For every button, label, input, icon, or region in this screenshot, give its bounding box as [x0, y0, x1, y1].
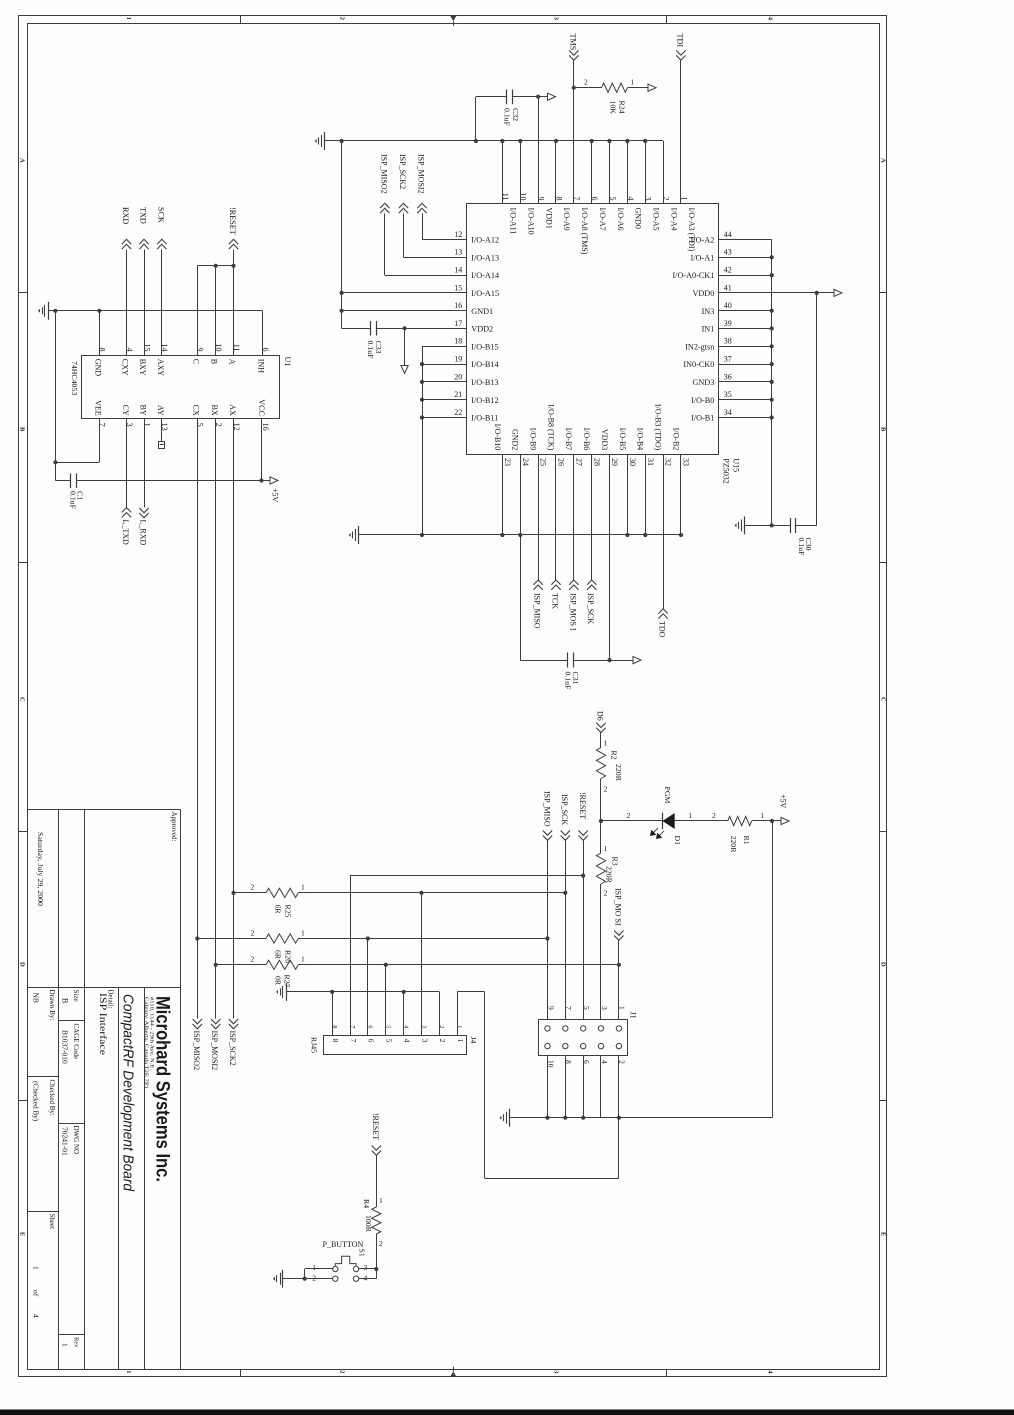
- svg-text:1: 1: [604, 844, 608, 853]
- svg-text:1: 1: [61, 1343, 70, 1347]
- label 74HC4053: [70, 361, 79, 395]
- svg-text:1: 1: [456, 1039, 465, 1043]
- wire VEE pin7: [55, 419, 99, 463]
- svg-text:DWG NO: DWG NO: [72, 1126, 80, 1155]
- svg-text:6R: 6R: [274, 905, 283, 915]
- svg-text:15: 15: [142, 344, 151, 352]
- svg-text:100R: 100R: [364, 1215, 373, 1233]
- label R27: [283, 975, 292, 988]
- U15 top pin names: [509, 208, 697, 255]
- svg-text:10K: 10K: [608, 101, 617, 115]
- svg-text:1: 1: [32, 1266, 41, 1270]
- svg-text:3: 3: [600, 1006, 609, 1010]
- flag TCK (pin26): [550, 454, 560, 609]
- svg-text:I/O-B3 (TDO): I/O-B3 (TDO): [654, 404, 663, 451]
- svg-text:D6: D6: [596, 711, 605, 721]
- title block DWG NO value: [61, 1127, 70, 1156]
- wire R26 to ISP_MISO: [298, 936, 549, 940]
- svg-text:GND1: GND1: [471, 307, 493, 316]
- svg-text:30: 30: [628, 458, 637, 466]
- wire A-B-C tie: [197, 264, 235, 268]
- svg-text:39: 39: [724, 319, 732, 328]
- svg-text:4: 4: [402, 1039, 411, 1043]
- wire ISP_SCK to J1 pin7: [565, 840, 567, 1019]
- bottom border zone numbers: [125, 1370, 774, 1374]
- wire VDD0 pin41: [718, 291, 834, 295]
- flag SCK: [156, 207, 166, 249]
- svg-text:A: A: [228, 359, 237, 365]
- RJ45 pin stub numbers: [331, 1025, 463, 1029]
- resistor R25: [231, 883, 305, 898]
- svg-text:+5V: +5V: [779, 794, 788, 809]
- wire RJ45 gnd line: [286, 990, 439, 994]
- svg-text:VEE: VEE: [94, 400, 103, 416]
- power arrow +5V (U1): [270, 477, 278, 484]
- flag ISP_MOSI (mid): [614, 888, 624, 940]
- svg-text:R4: R4: [362, 1199, 371, 1208]
- svg-text:NB: NB: [32, 993, 41, 1003]
- wire RJ45 pin4: [403, 992, 405, 1036]
- flag ISP_MOSI2 (U15): [417, 154, 427, 213]
- title block sheet numbers: [32, 1266, 41, 1318]
- label C33: [374, 341, 383, 354]
- wire ISP_MOSI2 to pin12: [422, 214, 467, 240]
- svg-text:16: 16: [454, 301, 462, 310]
- wire top ground bus: [325, 140, 663, 142]
- svg-text:9: 9: [546, 1006, 555, 1010]
- U15 right pin numbers: [724, 230, 732, 417]
- wire ISP_SCK2 to pin13: [404, 214, 467, 258]
- svg-text:16: 16: [261, 423, 270, 431]
- svg-text:I/O-A11: I/O-A11: [509, 208, 518, 235]
- svg-text:GND2: GND2: [511, 429, 520, 450]
- svg-text:ISP_MOSI2: ISP_MOSI2: [417, 154, 426, 194]
- svg-text:I/O-B13: I/O-B13: [471, 378, 498, 387]
- label R1 value: [729, 836, 738, 854]
- svg-text:S1: S1: [357, 1249, 366, 1257]
- svg-text:I/O-B6: I/O-B6: [582, 428, 591, 451]
- wire pin23 to gnd: [502, 454, 504, 535]
- svg-text:RXD: RXD: [121, 207, 130, 224]
- resistor R2: [596, 748, 605, 779]
- wire INH pin6: [262, 311, 264, 356]
- svg-text:I/O-A15: I/O-A15: [471, 289, 499, 298]
- title block grid: [28, 809, 181, 1369]
- svg-text:ISP_MISO2: ISP_MISO2: [192, 1031, 201, 1071]
- svg-text:of: of: [32, 1290, 41, 1297]
- resistor R27: [214, 955, 305, 970]
- svg-text:2: 2: [662, 197, 671, 201]
- svg-text:32: 32: [664, 458, 673, 466]
- svg-text:AX: AX: [228, 404, 237, 416]
- wire J1 pin10 to gnd: [545, 1055, 549, 1120]
- label J4: [469, 1037, 478, 1044]
- svg-text:13: 13: [454, 248, 462, 257]
- svg-text:TMS: TMS: [569, 34, 578, 51]
- svg-text:2: 2: [338, 1370, 345, 1373]
- top border zone numbers: [125, 17, 774, 21]
- ground (S1): [273, 1270, 283, 1288]
- wire RJ45 pin1: [457, 992, 459, 1036]
- svg-text:2: 2: [338, 17, 345, 20]
- wire D6 to R2: [601, 733, 608, 748]
- svg-text:I/O-B12: I/O-B12: [471, 396, 498, 405]
- flag TMS: [569, 34, 579, 61]
- title block board title: [120, 994, 136, 1192]
- flag ISP_MISO (pin25): [533, 454, 543, 629]
- wire BX pin2 to ISP_MOSI2: [215, 419, 217, 1019]
- wire C1 left: [55, 480, 71, 482]
- svg-text:29: 29: [610, 458, 619, 466]
- svg-text:1: 1: [125, 1370, 132, 1373]
- wire LED to R1: [675, 811, 728, 821]
- label D1: [673, 836, 682, 846]
- svg-text:GND: GND: [93, 359, 102, 377]
- svg-text:15: 15: [454, 283, 462, 292]
- svg-text:B: B: [61, 998, 70, 1003]
- label C30: [804, 538, 813, 551]
- title block Sheet label: [48, 1214, 56, 1230]
- svg-text:9: 9: [537, 197, 546, 201]
- svg-text:Drawn By:: Drawn By:: [48, 990, 56, 1021]
- svg-text:I/O-A3 (TDI): I/O-A3 (TDI): [687, 208, 696, 252]
- svg-text:23: 23: [503, 458, 512, 466]
- svg-text:7: 7: [349, 1039, 358, 1043]
- wire GND2 bus: [359, 534, 681, 536]
- resistor R3: [596, 853, 605, 884]
- svg-text:1: 1: [301, 883, 305, 892]
- label R24: [618, 101, 627, 114]
- wire RJ45 pin7 to !RESET line: [350, 876, 352, 1036]
- svg-text:0.1uF: 0.1uF: [366, 341, 375, 360]
- flag ISP_MISO2 (U15): [379, 154, 389, 213]
- svg-text:ISP_MISO: ISP_MISO: [542, 791, 551, 827]
- wire J1 pin8 to gnd: [563, 1055, 567, 1120]
- wire R25 to ISP_SCK: [298, 891, 567, 895]
- svg-text:8: 8: [331, 1039, 340, 1043]
- svg-text:31: 31: [646, 458, 655, 466]
- svg-text:1: 1: [312, 1263, 316, 1272]
- power arrow VDD2 down: [401, 328, 408, 373]
- wire ISP_MISO2 to pin14: [385, 214, 467, 276]
- wire S1 pin4: [359, 1269, 377, 1279]
- flag TXD: [139, 207, 149, 249]
- title block Size value: [61, 998, 70, 1003]
- label R24 pin2: [584, 77, 588, 86]
- svg-text:Calgary, Alberta, Canada T2E 7: Calgary, Alberta, Canada T2E 7P1: [143, 997, 149, 1089]
- svg-text:I/O-B15: I/O-B15: [471, 342, 498, 351]
- flag TDI: [676, 34, 686, 61]
- svg-text:IN0-CK0: IN0-CK0: [683, 360, 714, 369]
- svg-text:2: 2: [379, 1239, 383, 1248]
- svg-text:6: 6: [367, 1039, 376, 1043]
- svg-text:TCK: TCK: [550, 593, 559, 609]
- svg-text:22: 22: [454, 408, 462, 417]
- label R24 pin1: [631, 77, 635, 86]
- svg-text:CY: CY: [121, 405, 130, 416]
- flag L_RXD: [139, 419, 149, 546]
- svg-text:TDO: TDO: [658, 621, 667, 638]
- label R4: [362, 1199, 371, 1208]
- svg-text:3: 3: [420, 1039, 429, 1043]
- svg-text:2: 2: [251, 928, 255, 937]
- wire TXD to BXY pin15: [144, 250, 146, 356]
- U15 right pin names: [672, 236, 714, 423]
- U15 bottom pin numbers: [503, 458, 691, 466]
- wire ISP_MOSI to J1 pin1: [618, 940, 620, 1019]
- svg-text:0.1uF: 0.1uF: [503, 108, 512, 127]
- wire pin33 to gnd: [680, 454, 682, 535]
- svg-text:I/O-A6: I/O-A6: [616, 208, 625, 231]
- svg-text:43: 43: [724, 248, 732, 257]
- svg-text:IN1: IN1: [702, 325, 715, 334]
- bottom border center mark: [450, 1367, 456, 1377]
- S1 pin labels: [312, 1263, 367, 1283]
- wire S1 pin2 to gnd: [283, 1277, 333, 1281]
- title block Rev value: [61, 1343, 70, 1347]
- IC U15 PZ5032 body: [467, 204, 719, 455]
- right border zone ticks: [879, 293, 887, 1101]
- label R3 value: [604, 866, 613, 884]
- svg-text:2: 2: [712, 811, 716, 820]
- svg-text:I/O-A7: I/O-A7: [598, 208, 607, 231]
- flag ISP_MISO2 (bottom): [192, 1019, 202, 1070]
- wire R1 to +5V: [752, 811, 781, 823]
- svg-text:B1037-010: B1037-010: [61, 1030, 70, 1064]
- ground (J1 rail): [499, 1109, 509, 1127]
- svg-text:2: 2: [584, 77, 588, 86]
- svg-text:4: 4: [32, 1314, 41, 1318]
- wires pins18-22 to ground drop: [420, 346, 467, 535]
- svg-text:6R: 6R: [274, 950, 283, 960]
- wire pin31 to gnd: [645, 454, 647, 535]
- svg-text:J1: J1: [629, 1012, 638, 1019]
- svg-text:5: 5: [385, 1039, 394, 1043]
- label RJ45: [310, 1037, 319, 1053]
- label J1: [629, 1012, 638, 1019]
- svg-text:17: 17: [454, 319, 462, 328]
- wire !RESET to J1 pin5: [583, 840, 585, 1019]
- title block CAGE Code label: [72, 1024, 80, 1060]
- svg-text:CompactRF Development Board: CompactRF Development Board: [120, 994, 136, 1192]
- resistor R26: [195, 928, 305, 943]
- label C31: [571, 672, 580, 685]
- svg-text:ISP Interface: ISP Interface: [97, 993, 108, 1055]
- wire VCC pin16: [261, 419, 263, 481]
- wire +5V rail U1: [76, 478, 270, 482]
- wire C31 left to gnd: [520, 535, 567, 661]
- wire RJ45 pin2: [439, 992, 441, 1036]
- svg-text:ISP_SCK2: ISP_SCK2: [398, 154, 407, 189]
- svg-text:I/O-B9: I/O-B9: [529, 428, 538, 451]
- svg-text:I/O-B5: I/O-B5: [618, 428, 627, 451]
- LED D1: [651, 813, 675, 839]
- svg-text:42: 42: [724, 266, 732, 275]
- pushbutton S1: [333, 1256, 359, 1281]
- wire GND pin8: [99, 311, 101, 356]
- svg-text:!RESET: !RESET: [578, 792, 587, 819]
- svg-text:C: C: [18, 697, 25, 702]
- svg-text:B: B: [18, 427, 25, 432]
- flag ISP_SCK2 (bottom): [228, 1019, 238, 1066]
- svg-text:1: 1: [379, 1196, 383, 1205]
- svg-text:C: C: [879, 697, 886, 702]
- svg-text:VDD1: VDD1: [544, 208, 553, 229]
- U15 left pin numbers: [454, 230, 462, 417]
- wires U15 top pins to ground bus: [503, 141, 664, 204]
- flag !RESET (bottom): [371, 1113, 381, 1155]
- svg-text:CX: CX: [192, 405, 201, 416]
- svg-text:RJ45: RJ45: [310, 1037, 319, 1053]
- wire R2 to PGM node: [599, 779, 608, 824]
- label S1: [357, 1249, 366, 1257]
- svg-text:GND0: GND0: [634, 208, 643, 229]
- svg-text:ISP_MOS I: ISP_MOS I: [568, 593, 577, 631]
- svg-text:35: 35: [724, 390, 732, 399]
- svg-text:18: 18: [454, 337, 462, 346]
- capacitor C31: [568, 653, 574, 668]
- wire gnd drop from top bus: [341, 141, 343, 328]
- svg-text:PGM: PGM: [663, 787, 672, 804]
- flag TDO (pin32): [658, 454, 668, 638]
- label C1: [76, 491, 85, 500]
- svg-text:CXY: CXY: [121, 359, 130, 376]
- U1 bottom pin numbers: [98, 423, 270, 431]
- resistor R4: [372, 1207, 381, 1234]
- svg-text:U15: U15: [732, 458, 741, 472]
- wire R3 to J1 pin3: [601, 884, 608, 1020]
- title block Checked By value: [32, 1081, 40, 1122]
- svg-text:2: 2: [618, 1060, 627, 1064]
- right border zone letters: [879, 158, 886, 1236]
- svg-text:VDD3: VDD3: [600, 429, 609, 450]
- wire CX pin5 to ISP_MISO2: [197, 419, 199, 1019]
- svg-text:0R: 0R: [274, 976, 283, 986]
- title block address line1: [148, 997, 154, 1071]
- svg-text:14: 14: [454, 266, 462, 275]
- svg-text:Rev: Rev: [72, 1337, 79, 1348]
- wire C31 right: [573, 660, 609, 662]
- svg-text:I/O-B7: I/O-B7: [564, 428, 573, 451]
- ground (RJ45 pins): [276, 983, 287, 1001]
- svg-text:INH: INH: [256, 359, 265, 373]
- svg-text:D: D: [879, 962, 886, 967]
- label R26: [284, 950, 293, 963]
- label C32: [511, 108, 520, 121]
- svg-text:A: A: [879, 158, 886, 163]
- label R26 value: [274, 950, 283, 960]
- svg-text:AXY: AXY: [156, 359, 165, 377]
- svg-text:21: 21: [454, 390, 462, 399]
- svg-text:I/O-A13: I/O-A13: [471, 253, 499, 262]
- svg-text:ISP_SCK: ISP_SCK: [586, 593, 595, 624]
- svg-text:Saturday, July 29, 2000: Saturday, July 29, 2000: [36, 832, 45, 906]
- title block Drawn By label: [48, 990, 56, 1021]
- svg-text:+5V: +5V: [271, 488, 280, 503]
- svg-text:12: 12: [454, 230, 462, 239]
- label C1 value: [68, 491, 77, 510]
- svg-text:C: C: [191, 359, 200, 364]
- title block DWG NO label: [72, 1126, 80, 1155]
- svg-text:R24: R24: [618, 101, 627, 114]
- wire R27 to ISP_MOSI: [298, 963, 621, 967]
- title block company name: [152, 996, 174, 1182]
- svg-text:ISP_SCK2: ISP_SCK2: [228, 1031, 237, 1066]
- label R24 value: [608, 101, 617, 115]
- title block address line2: [143, 997, 149, 1089]
- U15 left pin names: [471, 236, 499, 423]
- wires U15 right pins to right bus: [718, 240, 774, 420]
- svg-text:ISP_MISO2: ISP_MISO2: [379, 154, 388, 194]
- svg-text:I/O-A4: I/O-A4: [669, 208, 678, 231]
- svg-text:2: 2: [604, 785, 608, 794]
- svg-text:I/O-B11: I/O-B11: [471, 414, 498, 423]
- svg-text:ISP_SCK: ISP_SCK: [560, 794, 569, 825]
- top border zone ticks: [241, 16, 667, 24]
- wire !RESET to R4: [377, 1155, 384, 1207]
- capacitor C1: [71, 473, 77, 488]
- svg-text:R1: R1: [742, 836, 751, 845]
- svg-text:AY: AY: [156, 405, 165, 416]
- title block Detail label: [107, 990, 115, 1009]
- U1 top pin numbers: [98, 344, 270, 352]
- svg-text:VDD2: VDD2: [471, 325, 493, 334]
- flag RXD: [121, 207, 131, 249]
- wire C32 left: [476, 97, 507, 142]
- wire VDD3 pin29 down: [607, 454, 633, 662]
- wire J1 pin6 to gnd: [581, 1055, 585, 1120]
- connector J1 body: [539, 1020, 628, 1056]
- capacitor C32: [507, 90, 513, 105]
- power arrow R24: [648, 84, 656, 91]
- power arrow +5V (R1): [781, 817, 789, 824]
- svg-text:4: 4: [600, 1060, 609, 1064]
- wire RJ45 pin5 to R27 line: [385, 965, 387, 1036]
- title block Checked By label: [48, 1080, 56, 1116]
- wire C pin9: [197, 266, 199, 356]
- svg-text:19: 19: [454, 355, 462, 364]
- svg-text:I/O-A14: I/O-A14: [471, 271, 499, 280]
- svg-text:PZ5032: PZ5032: [722, 458, 731, 483]
- svg-text:28: 28: [592, 458, 601, 466]
- svg-text:36: 36: [724, 372, 732, 381]
- wire !RESET to A pin11: [233, 250, 235, 356]
- top border center mark: [450, 16, 456, 26]
- label U15: [732, 458, 741, 472]
- svg-text:D: D: [18, 962, 25, 967]
- svg-text:ISP_MOSI2: ISP_MOSI2: [210, 1031, 219, 1071]
- svg-text:0.1uF: 0.1uF: [68, 491, 77, 510]
- svg-text:41: 41: [724, 283, 732, 292]
- svg-text:ISP_MO SI: ISP_MO SI: [614, 888, 623, 926]
- svg-text:L_TXD: L_TXD: [121, 520, 130, 546]
- resistor R24: [574, 83, 648, 92]
- label R27 value: [274, 976, 283, 986]
- label PZ5032: [722, 458, 731, 483]
- title block Rev label: [72, 1337, 79, 1348]
- wire SCK to AXY pin14: [161, 250, 163, 356]
- svg-text:TXD: TXD: [139, 207, 148, 224]
- svg-text:1: 1: [604, 739, 608, 748]
- svg-text:E: E: [879, 1232, 886, 1236]
- U1 top pin names: [93, 359, 265, 377]
- junctions on top ground bus: [340, 139, 648, 143]
- wire B pin10: [215, 266, 217, 356]
- label C32 value: [503, 108, 512, 127]
- capacitor C33: [371, 321, 377, 336]
- svg-text:2: 2: [627, 811, 631, 820]
- svg-text:0.1uF: 0.1uF: [797, 538, 806, 557]
